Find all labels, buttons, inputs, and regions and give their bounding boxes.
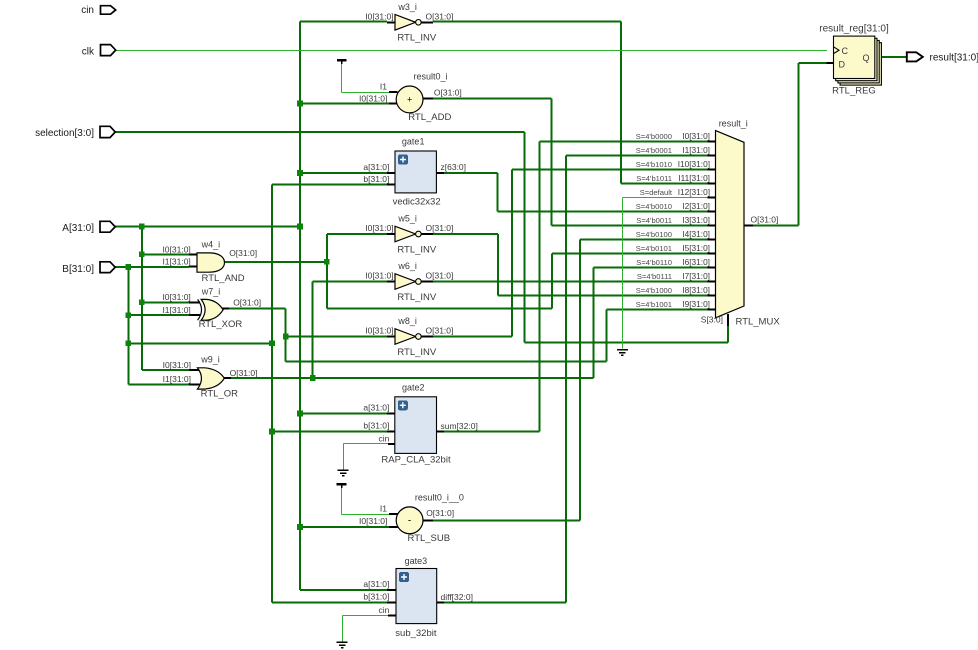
svg-text:S=4'b0000: S=4'b0000 (636, 132, 672, 141)
svg-text:I0[31:0]: I0[31:0] (365, 223, 393, 233)
svg-text:RTL_INV: RTL_INV (397, 347, 437, 358)
svg-text:vedic32x32: vedic32x32 (393, 197, 441, 208)
svg-text:I0[31:0]: I0[31:0] (365, 326, 393, 336)
svg-text:S[3:0]: S[3:0] (701, 315, 723, 325)
svg-text:I10[31:0]: I10[31:0] (678, 159, 710, 169)
svg-text:I1[31:0]: I1[31:0] (163, 374, 191, 384)
svg-text:I0[31:0]: I0[31:0] (365, 11, 393, 21)
svg-text:S=default: S=default (640, 188, 673, 197)
svg-text:O[31:0]: O[31:0] (230, 368, 258, 378)
svg-text:O[31:0]: O[31:0] (229, 248, 257, 258)
svg-text:I5[31:0]: I5[31:0] (682, 243, 710, 253)
svg-text:b[31:0]: b[31:0] (363, 421, 389, 431)
svg-text:w5_i: w5_i (397, 214, 417, 224)
svg-text:b[31:0]: b[31:0] (363, 174, 389, 184)
svg-text:I6[31:0]: I6[31:0] (682, 257, 710, 267)
svg-text:S=4'b0011: S=4'b0011 (636, 216, 672, 225)
svg-text:I3[31:0]: I3[31:0] (682, 215, 710, 225)
svg-text:cin: cin (379, 605, 390, 615)
svg-text:S=4'b0010: S=4'b0010 (636, 202, 672, 211)
svg-text:RTL_INV: RTL_INV (397, 244, 437, 255)
svg-text:z[63:0]: z[63:0] (441, 162, 467, 172)
svg-text:S=4'b0110: S=4'b0110 (636, 258, 672, 267)
svg-text:O[31:0]: O[31:0] (751, 214, 779, 224)
svg-text:cin: cin (81, 5, 94, 16)
svg-text:I0[31:0]: I0[31:0] (365, 271, 393, 281)
svg-text:w9_i: w9_i (200, 355, 220, 365)
svg-text:w3_i: w3_i (397, 2, 417, 12)
svg-text:sub_32bit: sub_32bit (395, 628, 437, 639)
svg-text:O[31:0]: O[31:0] (426, 271, 454, 281)
svg-text:O[31:0]: O[31:0] (426, 11, 454, 21)
svg-text:O[31:0]: O[31:0] (426, 508, 454, 518)
svg-text:RTL_SUB: RTL_SUB (408, 533, 451, 544)
svg-text:cin: cin (379, 434, 390, 444)
svg-text:a[31:0]: a[31:0] (363, 162, 389, 172)
svg-text:I0[31:0]: I0[31:0] (359, 94, 387, 104)
svg-text:C: C (842, 46, 849, 56)
svg-text:gate1: gate1 (402, 136, 425, 146)
svg-text:w7_i: w7_i (201, 287, 221, 297)
svg-text:I1[31:0]: I1[31:0] (682, 145, 710, 155)
svg-text:I2[31:0]: I2[31:0] (682, 201, 710, 211)
svg-text:S=4'b1001: S=4'b1001 (636, 300, 672, 309)
svg-text:-: - (408, 515, 411, 526)
svg-text:O[31:0]: O[31:0] (426, 223, 454, 233)
svg-text:S=4'b1010: S=4'b1010 (636, 160, 672, 169)
svg-text:I0[31:0]: I0[31:0] (163, 360, 191, 370)
svg-text:RTL_MUX: RTL_MUX (736, 317, 781, 328)
svg-text:result_reg[31:0]: result_reg[31:0] (819, 24, 889, 35)
svg-text:w6_i: w6_i (397, 261, 417, 271)
svg-text:O[31:0]: O[31:0] (426, 326, 454, 336)
svg-text:I1: I1 (380, 504, 387, 514)
svg-text:I1: I1 (380, 82, 387, 92)
svg-text:RTL_AND: RTL_AND (202, 273, 245, 284)
svg-text:A[31:0]: A[31:0] (62, 223, 94, 234)
svg-text:w4_i: w4_i (201, 239, 221, 249)
svg-text:I7[31:0]: I7[31:0] (682, 271, 710, 281)
svg-text:RTL_INV: RTL_INV (397, 33, 437, 44)
svg-text:w8_i: w8_i (397, 316, 417, 326)
svg-text:I0[31:0]: I0[31:0] (162, 292, 190, 302)
svg-text:diff[32:0]: diff[32:0] (441, 592, 473, 602)
svg-text:S=4'b0100: S=4'b0100 (636, 230, 672, 239)
svg-text:RTL_XOR: RTL_XOR (199, 319, 243, 330)
svg-text:O[31:0]: O[31:0] (434, 87, 462, 97)
svg-text:I1[31:0]: I1[31:0] (162, 305, 190, 315)
svg-text:a[31:0]: a[31:0] (363, 403, 389, 413)
svg-text:RTL_OR: RTL_OR (201, 389, 238, 400)
svg-text:RTL_ADD: RTL_ADD (408, 112, 451, 123)
svg-text:result0_i: result0_i (413, 72, 447, 82)
svg-text:S=4'b1000: S=4'b1000 (636, 286, 672, 295)
svg-text:RAP_CLA_32bit: RAP_CLA_32bit (381, 455, 451, 466)
svg-text:sum[32:0]: sum[32:0] (441, 421, 478, 431)
svg-text:result[31:0]: result[31:0] (930, 53, 978, 64)
svg-text:RTL_INV: RTL_INV (397, 292, 437, 303)
svg-text:I12[31:0]: I12[31:0] (678, 187, 710, 197)
svg-text:I1[31:0]: I1[31:0] (162, 257, 190, 267)
svg-text:S=4'b0001: S=4'b0001 (636, 146, 672, 155)
svg-text:S=4'b0111: S=4'b0111 (637, 272, 672, 281)
svg-text:result0_i__0: result0_i__0 (415, 493, 464, 503)
svg-text:D: D (839, 59, 846, 69)
svg-text:result_i: result_i (719, 119, 748, 129)
svg-text:I11[31:0]: I11[31:0] (678, 173, 710, 183)
svg-text:a[31:0]: a[31:0] (363, 579, 389, 589)
svg-text:RTL_REG: RTL_REG (832, 86, 876, 97)
svg-text:gate2: gate2 (402, 382, 425, 392)
svg-text:I0[31:0]: I0[31:0] (162, 244, 190, 254)
svg-text:O[31:0]: O[31:0] (233, 298, 261, 308)
svg-text:Q: Q (863, 53, 870, 63)
svg-text:I9[31:0]: I9[31:0] (682, 299, 710, 309)
svg-text:gate3: gate3 (405, 556, 428, 566)
svg-text:b[31:0]: b[31:0] (363, 592, 389, 602)
svg-text:+: + (407, 95, 412, 105)
svg-text:B[31:0]: B[31:0] (62, 264, 94, 275)
svg-text:I0[31:0]: I0[31:0] (682, 131, 710, 141)
svg-text:I0[31:0]: I0[31:0] (359, 516, 387, 526)
svg-text:S=4'b0101: S=4'b0101 (636, 244, 672, 253)
svg-text:clk: clk (82, 46, 95, 57)
svg-text:I4[31:0]: I4[31:0] (682, 229, 710, 239)
svg-text:selection[3:0]: selection[3:0] (35, 128, 94, 139)
svg-text:I8[31:0]: I8[31:0] (682, 285, 710, 295)
svg-text:S=4'b1011: S=4'b1011 (636, 174, 672, 183)
